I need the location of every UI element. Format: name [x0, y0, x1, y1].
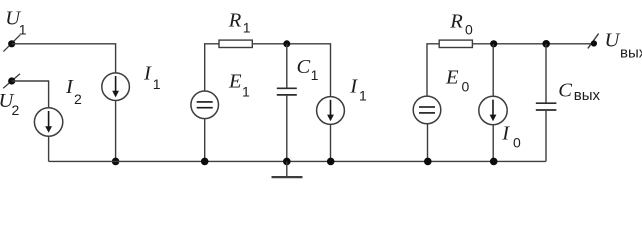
svg-text:вых: вых: [620, 44, 642, 61]
junction node C1 top: [283, 40, 290, 47]
resistor R1: [219, 40, 252, 47]
svg-text:U: U: [605, 30, 621, 52]
current source I2: [34, 108, 62, 136]
voltage source E1: [191, 91, 219, 119]
terminal U2: [3, 74, 20, 88]
label U1: [5, 8, 27, 38]
svg-text:I: I: [65, 76, 74, 98]
label R0: [449, 11, 473, 38]
junction E1-rail: [201, 158, 209, 166]
svg-text:0: 0: [513, 134, 521, 150]
resistor R0: [439, 40, 472, 47]
junction I1a-rail: [112, 158, 120, 166]
label C1: [297, 56, 319, 83]
ground: [272, 161, 303, 177]
capacitor C1: [277, 88, 297, 95]
svg-text:I: I: [143, 63, 152, 85]
voltage source E0: [413, 96, 441, 124]
svg-text:1: 1: [359, 87, 367, 103]
wire I2 bottom: [48, 136, 50, 161]
bottom rail: [49, 160, 546, 162]
svg-text:C: C: [297, 56, 311, 78]
svg-text:1: 1: [242, 84, 250, 100]
label E0: [445, 66, 470, 94]
wire R1 to I1b top: [252, 44, 330, 97]
wire I0 bottom: [492, 125, 494, 162]
current source I1b: [317, 97, 345, 125]
svg-text:I: I: [501, 123, 510, 145]
wire I1a bottom: [115, 101, 117, 162]
terminal U1: [3, 35, 20, 52]
wire I1b bottom: [330, 124, 332, 161]
svg-text:E: E: [445, 66, 459, 88]
junction Cout top: [542, 40, 550, 48]
wire E0 top to R0: [427, 44, 439, 96]
capacitor Cout: [536, 103, 557, 110]
wire E1 top to R1: [205, 44, 219, 91]
svg-text:2: 2: [74, 91, 82, 107]
svg-text:I: I: [349, 76, 358, 98]
wire E1 bottom: [204, 119, 206, 162]
wire U2 to I2 top: [12, 81, 49, 108]
wire U1 to I1a top: [12, 44, 116, 73]
junction I0-rail: [490, 158, 498, 166]
wire Cout top: [545, 44, 547, 103]
label R1: [228, 9, 251, 35]
svg-text:1: 1: [153, 76, 161, 92]
junction E0-rail: [424, 158, 432, 166]
svg-text:E: E: [228, 71, 242, 93]
wire I0 top: [492, 44, 494, 97]
label I2: [65, 76, 82, 107]
svg-text:вых: вых: [574, 87, 601, 104]
label Uout: [605, 30, 642, 62]
wire E0 bottom: [427, 124, 429, 162]
junction I1b-rail: [327, 158, 335, 166]
wire R0 to terminal: [472, 43, 593, 45]
current source I1a: [102, 73, 130, 101]
svg-text:1: 1: [19, 22, 27, 38]
svg-text:1: 1: [243, 20, 251, 36]
label U2: [0, 90, 20, 118]
label Cout: [558, 79, 600, 104]
current source I0: [479, 96, 507, 124]
svg-text:C: C: [558, 79, 572, 101]
junction C1-rail: [283, 158, 291, 166]
junction I0 top: [490, 40, 497, 47]
svg-text:0: 0: [462, 79, 470, 95]
svg-text:R: R: [228, 9, 242, 31]
wire C1 bottom: [286, 95, 288, 161]
terminal Uout: [588, 34, 599, 49]
label I1 (left): [143, 63, 161, 93]
svg-text:1: 1: [311, 67, 319, 83]
label E1: [228, 71, 250, 100]
label I0: [501, 123, 521, 151]
wire Cout bottom: [545, 110, 547, 161]
svg-text:2: 2: [12, 102, 20, 118]
label I1 (right): [349, 76, 367, 104]
wire C1 top: [286, 44, 288, 89]
svg-text:0: 0: [465, 21, 473, 37]
svg-text:R: R: [449, 11, 463, 33]
